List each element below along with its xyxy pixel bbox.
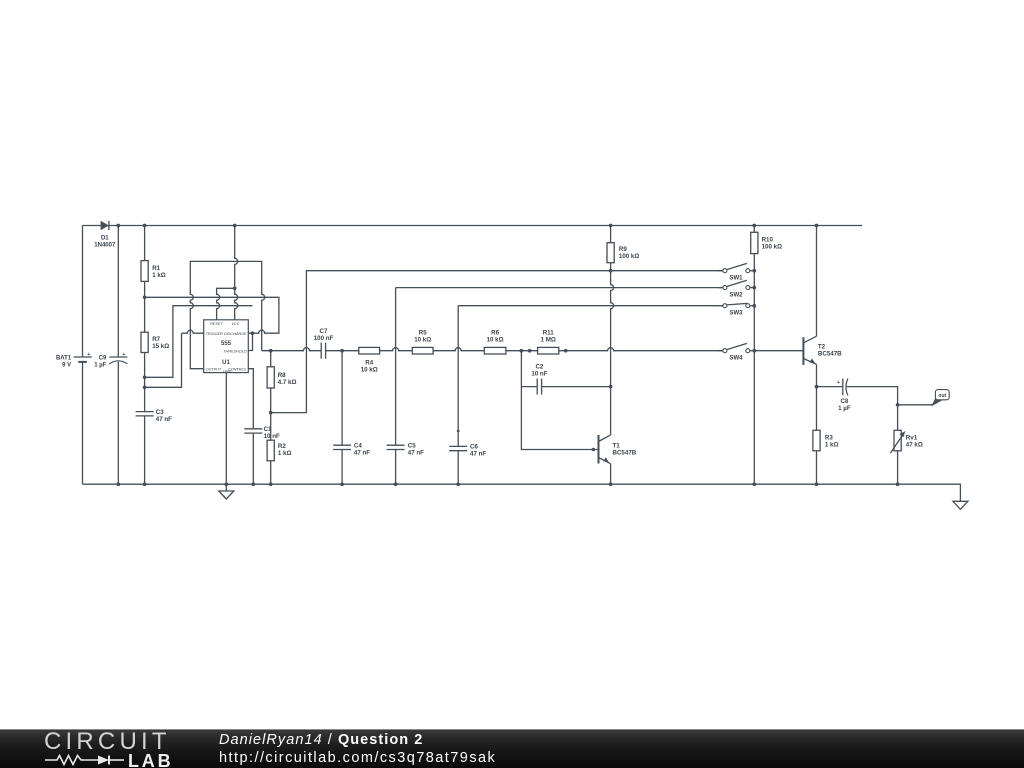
junction RESET/VCC [233,286,237,290]
svg-text:THRESHOLD: THRESHOLD [223,350,247,354]
junction C9 top [116,224,120,228]
junction on C6 riser [457,430,460,433]
svg-text:SW2: SW2 [729,292,743,298]
switch SW2 [719,280,755,298]
svg-text:+: + [122,352,125,358]
svg-text:Rv1: Rv1 [906,435,918,442]
rheostat Rv1 [890,430,923,453]
junction R8 top on main line [269,349,273,353]
svg-text:C8: C8 [840,398,848,405]
wire 555 GND pin to rail [225,373,227,485]
footer bar [0,729,1024,768]
svg-text:R10: R10 [762,236,774,243]
svg-text:SW3: SW3 [729,311,743,317]
resistor R10 [751,232,782,253]
junction C9 bottom [116,482,120,486]
svg-text:10 kΩ: 10 kΩ [414,336,431,343]
wire T1 emitter to rail [610,464,612,485]
wire R3 branch [816,387,818,485]
svg-text:+: + [87,352,90,358]
transistor T1 [592,435,637,464]
svg-text:R2: R2 [278,443,286,450]
svg-text:47 kΩ: 47 kΩ [906,442,923,449]
wire R8 branch [270,351,272,485]
junction T2 collector rail [815,224,819,228]
diode D1 [94,221,116,249]
svg-text:CONTROL: CONTROL [228,368,247,372]
svg-text:R4: R4 [365,359,373,366]
svg-text:C7: C7 [320,328,328,335]
junction T1 emitter rail [609,482,613,486]
svg-text:10 nF: 10 nF [264,433,280,440]
svg-text:BC547B: BC547B [818,350,842,357]
resistor R6 [484,329,506,354]
svg-text:100 nF: 100 nF [314,335,334,342]
resistor R5 [412,329,433,354]
junction threshold tap on R7 wire [143,375,147,379]
svg-text:100 kΩ: 100 kΩ [762,243,782,250]
resistor R1 [141,261,166,282]
capacitor C9 (polarized) [94,352,127,368]
junction C3 bottom [143,482,147,486]
junction C4 top [340,349,344,353]
wire out tap [898,404,933,406]
wire VCC riser (pin VCC to top rail) [235,226,238,320]
wire C2 line [521,386,610,388]
junction R10/SW1 [752,269,756,273]
junction out node [896,403,900,407]
wire R10 riser [753,226,755,485]
svg-text:OUTPUT: OUTPUT [206,368,222,372]
svg-text:100 kΩ: 100 kΩ [619,253,639,260]
svg-text:R11: R11 [543,329,555,336]
node out flag [931,390,949,407]
switch SW4 [719,343,755,361]
junction R10/SW2 [752,286,756,290]
svg-text:R6: R6 [491,329,499,336]
wire Rv1 branch [897,405,899,484]
svg-text:T2: T2 [818,343,826,350]
svg-text:47 nF: 47 nF [354,449,370,456]
svg-text:10 nF: 10 nF [531,370,547,377]
svg-text:VCC: VCC [231,322,239,326]
svg-text:SW4: SW4 [729,356,743,362]
junction C2 riser top [520,349,524,353]
junction R10 bottom rail [752,482,756,486]
junction Rv1 bottom rail [896,482,900,486]
ground symbol U1 [219,491,234,499]
junction R11 right [564,349,568,353]
svg-text:DISCHARGE: DISCHARGE [224,332,247,336]
svg-text:1 µF: 1 µF [838,405,851,412]
junction C6 bottom [456,482,460,486]
svg-text:SW1: SW1 [729,276,743,282]
svg-text:RESET: RESET [210,322,223,326]
wire threshold left line [145,306,253,378]
wire 555 GND stub below rail [225,484,227,491]
svg-text:D1: D1 [101,236,109,242]
svg-text:+: + [837,380,840,386]
resistor R2 [267,440,291,461]
svg-text:1 µF: 1 µF [94,363,106,369]
capacitor C4 [333,442,370,456]
svg-text:1N4007: 1N4007 [94,243,116,249]
transistor T2 [803,336,842,365]
wire control riser to C1 [248,369,253,485]
junction R9/SW1 [609,269,613,273]
wire C8 line [817,387,898,405]
svg-text:10 kΩ: 10 kΩ [487,336,504,343]
CircuitLab logo [44,731,184,768]
svg-text:4.7 kΩ: 4.7 kΩ [278,379,297,386]
junction GND pin rail [224,482,228,486]
svg-text:C2: C2 [535,363,543,370]
switch SW3 [719,303,755,316]
wire R8/R2 node to SW1 riser [271,271,723,413]
svg-text:TRIGGER: TRIGGER [206,332,224,336]
junction R3 bottom rail [815,482,819,486]
svg-text:1 kΩ: 1 kΩ [278,450,292,457]
svg-text:1 MΩ: 1 MΩ [541,336,556,343]
junction threshold/discharge riser [251,331,255,335]
wire T2 emitter down [816,364,818,386]
capacitor C8 (polarized) [837,379,851,413]
wire R9 riser [611,226,614,435]
resistor R9 [607,243,639,263]
svg-text:R9: R9 [619,246,627,253]
wire SW3 line and C6 branch [458,306,723,485]
switch SW1 [719,263,755,281]
capacitor C2 [531,363,547,394]
resistor R11 [538,329,559,354]
svg-text:R3: R3 [825,435,833,442]
junction C4 bottom [340,482,344,486]
ground symbol right [953,501,968,509]
svg-text:out: out [938,393,946,399]
svg-text:BAT1: BAT1 [56,356,72,362]
wire C4 branch [341,351,343,485]
wire main signal line [262,348,723,351]
wire R1-R7-C3 branch [144,226,146,485]
resistor R4 [359,347,380,373]
junction R9 top rail [609,224,613,228]
resistor R7 [141,332,169,352]
svg-text:BC547B: BC547B [613,450,637,457]
svg-text:R8: R8 [278,372,286,379]
wire SW4 to T2 base [754,350,803,352]
svg-text:T1: T1 [613,443,621,450]
svg-text:10 kΩ: 10 kΩ [361,366,378,373]
svg-text:555: 555 [221,341,232,347]
svg-text:R5: R5 [419,329,427,336]
junction C1 bottom [251,482,255,486]
junction main line node A [528,349,532,353]
capacitor C7 [314,328,334,359]
wire discharge to R1/R7 tap [145,297,279,333]
capacitor C6 [449,444,486,458]
junction R10/SW4 [752,349,756,353]
wire trigger line [145,330,204,387]
svg-text:C5: C5 [408,442,416,449]
wire threshold riser [248,333,252,350]
junction trigger tap on R7 wire [143,385,147,389]
wire T2 collector riser [816,226,818,337]
junction R1 top [143,224,147,228]
junction R2 bottom [269,482,273,486]
junction C2/T1 collector node [609,385,613,389]
battery BAT1 [56,352,92,368]
junction R10 top rail [752,224,756,228]
svg-text:C1: C1 [264,426,272,433]
resistor R3 [813,430,839,451]
svg-text:C3: C3 [156,409,164,416]
svg-text:C9: C9 [99,356,107,362]
capacitor C5 [387,442,425,456]
op-amp U1 555 timer [204,320,249,374]
wire bottom ground rail [83,484,961,501]
svg-text:47 nF: 47 nF [156,416,172,423]
svg-text:9 V: 9 V [62,363,71,369]
svg-text:C6: C6 [470,444,478,451]
wire top power rail [83,225,863,227]
resistor R8 [267,367,296,388]
wire output net (OUTPUT pin to main line) [190,261,264,368]
svg-text:1 kΩ: 1 kΩ [825,442,839,449]
svg-text:U1: U1 [222,360,230,366]
svg-text:R7: R7 [152,336,160,343]
wire C9 branch [117,226,119,485]
svg-text:1 kΩ: 1 kΩ [152,272,166,279]
svg-text:C4: C4 [354,442,362,449]
svg-text:47 nF: 47 nF [408,449,424,456]
junction R1 bottom / discharge line [143,295,147,299]
wire battery left branch [82,226,84,485]
capacitor C3 [136,409,173,423]
wire C2 left riser and T1 base wire [521,351,598,450]
junction VCC rail [233,224,237,228]
svg-text:15 kΩ: 15 kΩ [152,343,169,350]
junction C5 bottom [394,482,398,486]
footer text [219,732,496,766]
junction R10/SW3 [752,304,756,308]
wire RESET tap [217,288,235,320]
wire SW2 line and C5 branch [396,288,723,485]
capacitor C1 [244,426,280,440]
junction T2 emitter node [815,385,819,389]
svg-text:47 nF: 47 nF [470,451,486,458]
svg-text:R1: R1 [152,265,160,272]
junction R8/R2 node [269,411,273,415]
